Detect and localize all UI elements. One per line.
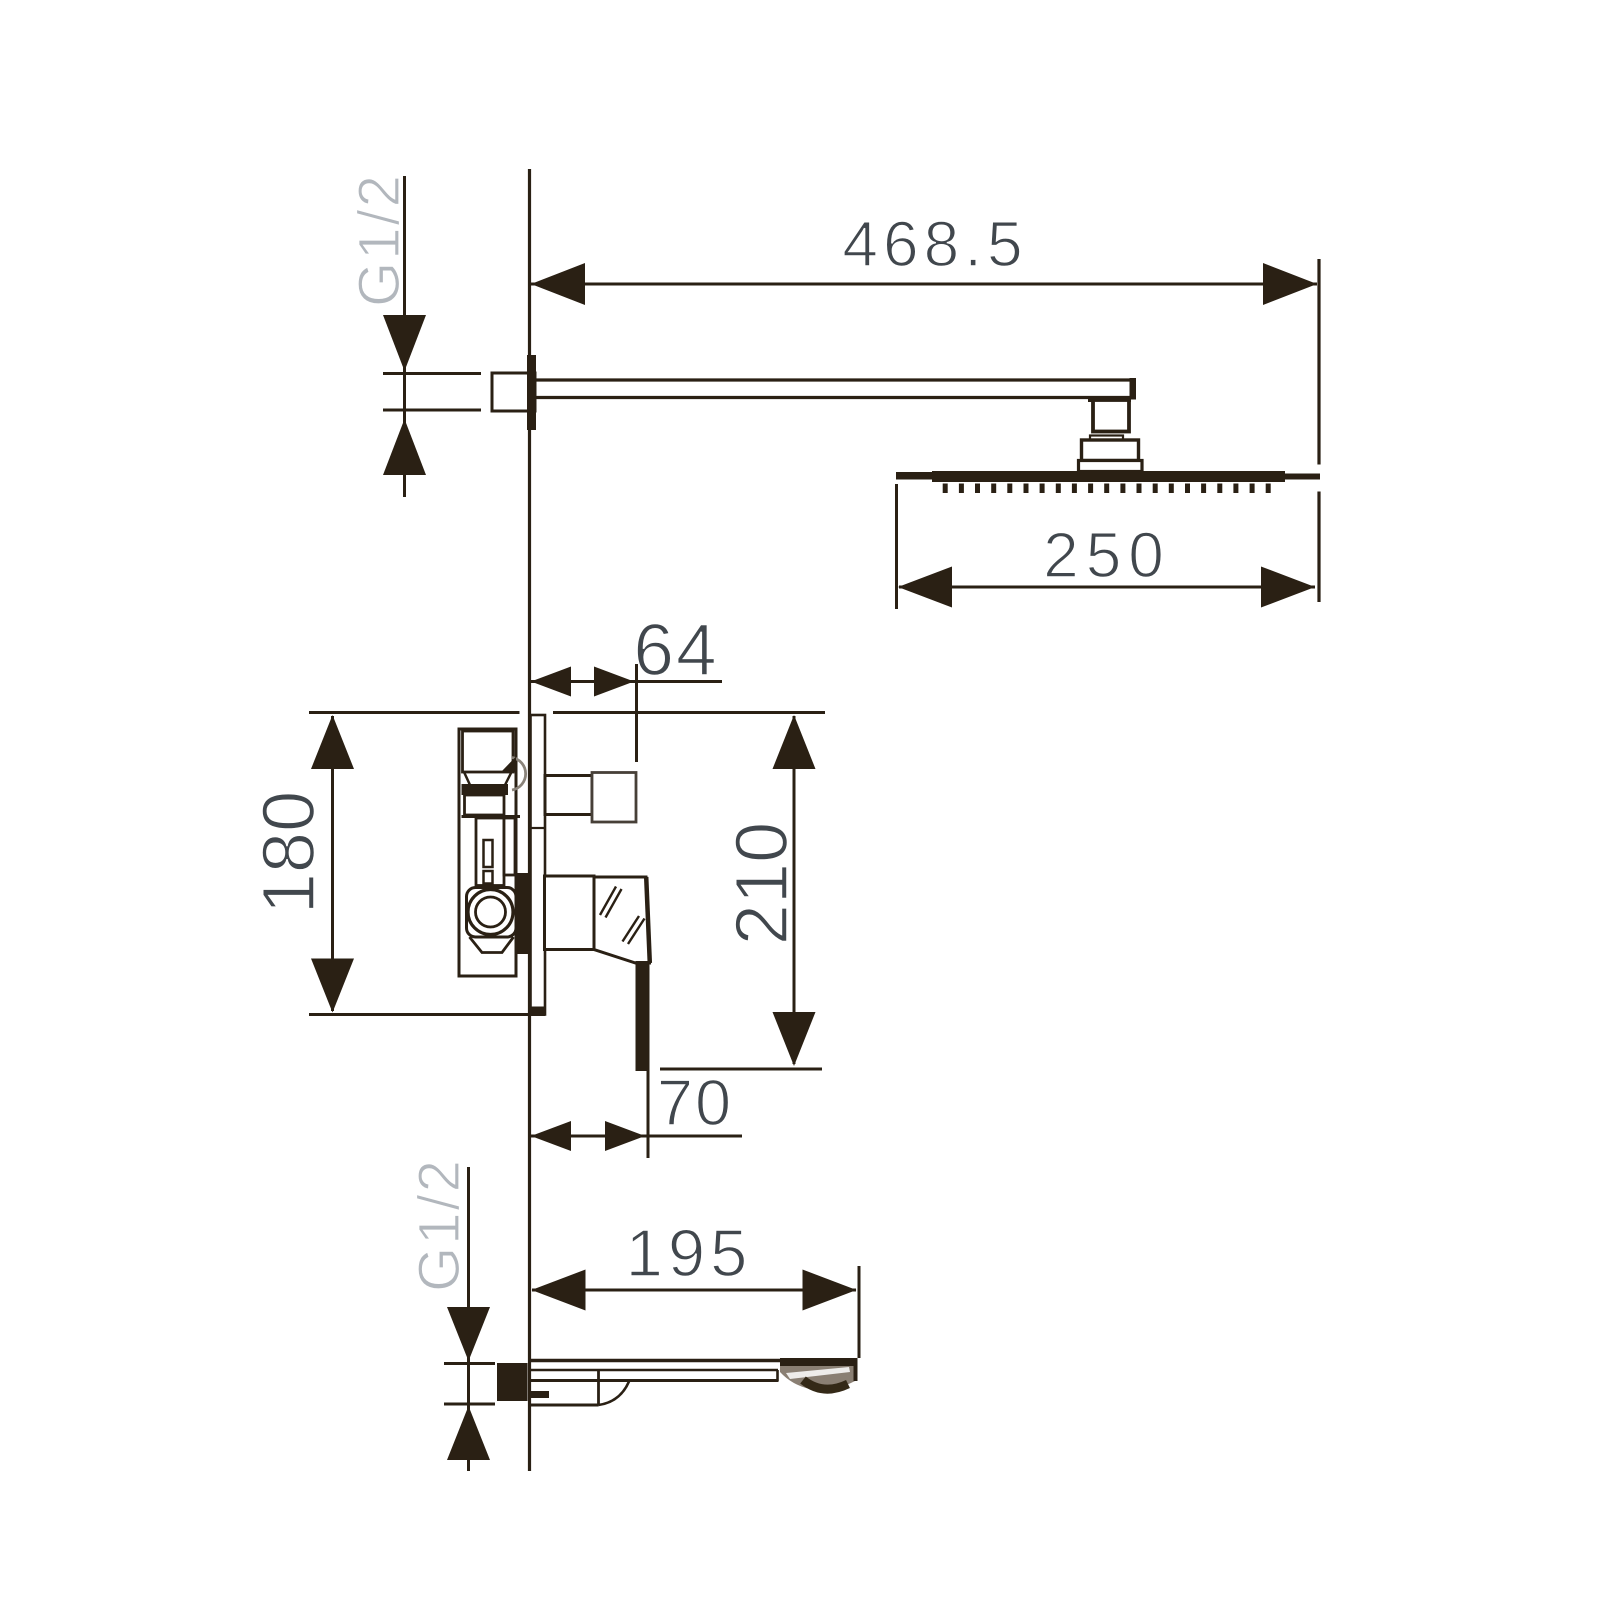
arrow 195 right — [803, 1270, 857, 1311]
valve right band — [504, 818, 515, 875]
dimension 250 line — [899, 586, 1315, 589]
head base — [1079, 461, 1143, 472]
extension line 64 — [635, 664, 638, 762]
arrow 468.5 right — [1263, 263, 1317, 305]
dimension G1/2 bottom line — [467, 1167, 470, 1471]
dimension 180 line — [331, 716, 334, 1011]
spout end cap — [780, 1358, 857, 1367]
extension line 195 right — [858, 1266, 861, 1358]
diverter stub inner — [545, 776, 592, 815]
arrow 70 right — [605, 1121, 645, 1151]
extension line 70 — [647, 1070, 650, 1158]
arrow 210 down — [773, 1012, 816, 1066]
spout nub — [531, 1391, 549, 1398]
dimension 468.5 line — [531, 283, 1317, 286]
svg-text:G1/2: G1/2 — [347, 173, 412, 307]
svg-text:468.5: 468.5 — [842, 208, 1027, 280]
svg-text:250: 250 — [1043, 519, 1171, 591]
spout third line — [531, 1379, 779, 1382]
valve dark strip at wall — [517, 873, 529, 954]
spout second line — [531, 1369, 778, 1372]
supply outer circle — [468, 890, 513, 935]
shower arm top line — [536, 378, 1135, 381]
arrow 195 left — [532, 1270, 586, 1311]
arm end lip — [1088, 398, 1131, 403]
arm neck — [1093, 400, 1129, 432]
arrow 180 up — [311, 715, 354, 769]
extension line 180 bottom — [309, 1013, 545, 1016]
handle base — [545, 876, 595, 950]
tick G1/2 bottom lower — [444, 1403, 495, 1406]
arrow 210 up — [773, 715, 816, 769]
arrow 250 left — [898, 567, 952, 608]
arrow 180 down — [311, 959, 354, 1013]
svg-text:180: 180 — [247, 791, 330, 914]
valve taper lines — [464, 772, 470, 785]
arrow 64 left — [531, 667, 571, 697]
dimension 195 line — [532, 1289, 856, 1292]
cartridge body — [476, 818, 504, 886]
spout escutcheon — [597, 1371, 600, 1405]
svg-text:70: 70 — [657, 1066, 733, 1139]
spout top line — [531, 1359, 857, 1362]
wall line — [528, 169, 531, 1471]
nozzles — [943, 484, 1271, 494]
dimension G1/2 top line — [403, 176, 406, 497]
tick G1/2 bottom upper — [444, 1362, 495, 1365]
arrow G1/2 top up — [383, 419, 426, 475]
tick G1/2 top upper — [383, 372, 481, 375]
arrow G1/2 bottom up — [447, 1406, 490, 1460]
arm end cap — [1130, 378, 1137, 400]
shower head plate — [896, 472, 932, 480]
dimension 210 line — [793, 716, 796, 1064]
cartridge slot — [484, 840, 493, 867]
diverter stub outer — [592, 773, 636, 823]
dimension 70 line — [531, 1135, 742, 1138]
cartridge top line — [462, 815, 521, 818]
arrow G1/2 bottom down — [447, 1307, 490, 1361]
supply rounded square — [467, 888, 517, 938]
lever hatches — [600, 887, 616, 916]
svg-text:G1/2: G1/2 — [407, 1158, 472, 1292]
spout inlet — [497, 1363, 528, 1401]
handle lever — [594, 877, 650, 963]
head joint — [1082, 440, 1139, 461]
extension line right upper — [1317, 259, 1320, 465]
extension line top of valve — [309, 711, 520, 714]
arrow 64 right — [594, 667, 634, 697]
svg-text:195: 195 — [626, 1216, 753, 1291]
valve open band — [465, 795, 505, 815]
dimension 64 line — [531, 680, 722, 683]
supply inner circle — [476, 897, 506, 927]
arrow 468.5 left — [531, 263, 585, 305]
extension line 250 left — [895, 484, 898, 609]
handle bar — [636, 961, 650, 1071]
arrow 70 left — [531, 1121, 571, 1151]
valve rough-in box — [459, 729, 516, 976]
extension line 210 bottom — [660, 1068, 822, 1071]
shower arm bottom line — [536, 396, 1135, 399]
arm flange square — [492, 373, 535, 411]
pipe bulge — [512, 758, 526, 791]
funnel below circle — [470, 937, 514, 953]
spout step — [776, 1370, 779, 1381]
valve dark band — [462, 784, 509, 795]
tick G1/2 top lower — [383, 409, 481, 412]
svg-text:64: 64 — [633, 610, 718, 691]
svg-text:210: 210 — [720, 822, 803, 945]
head washer — [1090, 436, 1123, 441]
valve inner top chamber — [463, 731, 514, 772]
arm wall mount dark bar — [527, 355, 536, 430]
extension line right lower — [1317, 492, 1320, 603]
arrow G1/2 top down — [383, 315, 426, 371]
escutcheon plate — [531, 715, 546, 1015]
arrow 250 right — [1261, 567, 1315, 608]
